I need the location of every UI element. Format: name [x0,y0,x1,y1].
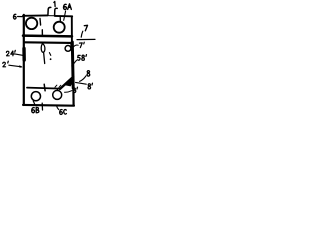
roller 6 top-left circle [26,18,37,29]
label 6A [64,4,67,9]
thread guide hook right at opening 1 [55,8,58,15]
leader comma for label 7 [81,31,83,37]
label 8 [87,71,90,76]
leader curve for label 6C [57,106,59,110]
label 24' [6,51,9,56]
leader line for label 58' [72,60,77,66]
take-up lever tail [44,52,45,63]
bottom shelf line [27,88,61,89]
lever arm 3' diagonal [60,77,73,89]
thread tick above shelf [41,30,43,35]
divider tick between rollers [39,18,42,25]
hatch tick 2 above bottom shelf [59,85,61,87]
dot below dash [50,58,52,60]
arrowhead of 2' leader [19,65,23,68]
housing top edge right segment [55,15,72,17]
leader tick for 6B below edge [41,103,43,110]
label 7' [79,43,82,48]
leader arrow for label 2' [9,65,22,67]
leader curve for label 8 [80,76,86,82]
housing top edge middle thin segment [47,15,55,17]
label 7 [84,25,87,30]
left wall thick section [22,49,26,61]
leader dash for label 8' [76,82,87,84]
label 3' [73,88,76,93]
pivot circle 7' on right wall [65,46,71,52]
roller 6C stem [56,89,58,91]
bottom roller 6C circle [53,90,62,99]
lever filled arrowhead [65,76,74,86]
leader line for label 6A [64,11,66,20]
right wall bold mid section [71,42,75,88]
thread guide hook left at opening 1 [48,7,51,15]
bottom roller 6B circle [31,92,40,101]
housing left wall 2 [23,15,25,105]
label 58' [78,55,81,60]
label 6 [13,14,16,19]
right wall lower section [72,88,74,105]
arrowhead at pivot [70,44,73,50]
roller 6A stem to top edge [59,16,61,22]
leader squiggle for label 7' [74,45,78,47]
small dash right of loop [49,53,50,56]
reference line under 7 [77,38,95,40]
hatch tick 1 above bottom shelf [55,85,57,87]
leader line for label 24' [14,54,23,56]
label 1 [54,1,55,6]
label 2' [3,62,6,67]
label 8' [88,84,91,89]
upper shelf line [23,34,72,37]
roller 6B tail [33,101,35,105]
thread bottom tick [43,84,46,91]
roller 6A top-right circle [54,22,65,33]
label 6B [32,108,35,113]
leader curve from 3' [65,91,73,93]
label 6C [60,110,63,115]
leader dash for label 6 [18,16,23,18]
housing top edge left segment [23,14,47,16]
housing bottom edge [23,104,74,107]
lower shelf line [25,41,72,44]
take-up lever loop [41,44,45,53]
housing right wall 58 [71,17,73,43]
